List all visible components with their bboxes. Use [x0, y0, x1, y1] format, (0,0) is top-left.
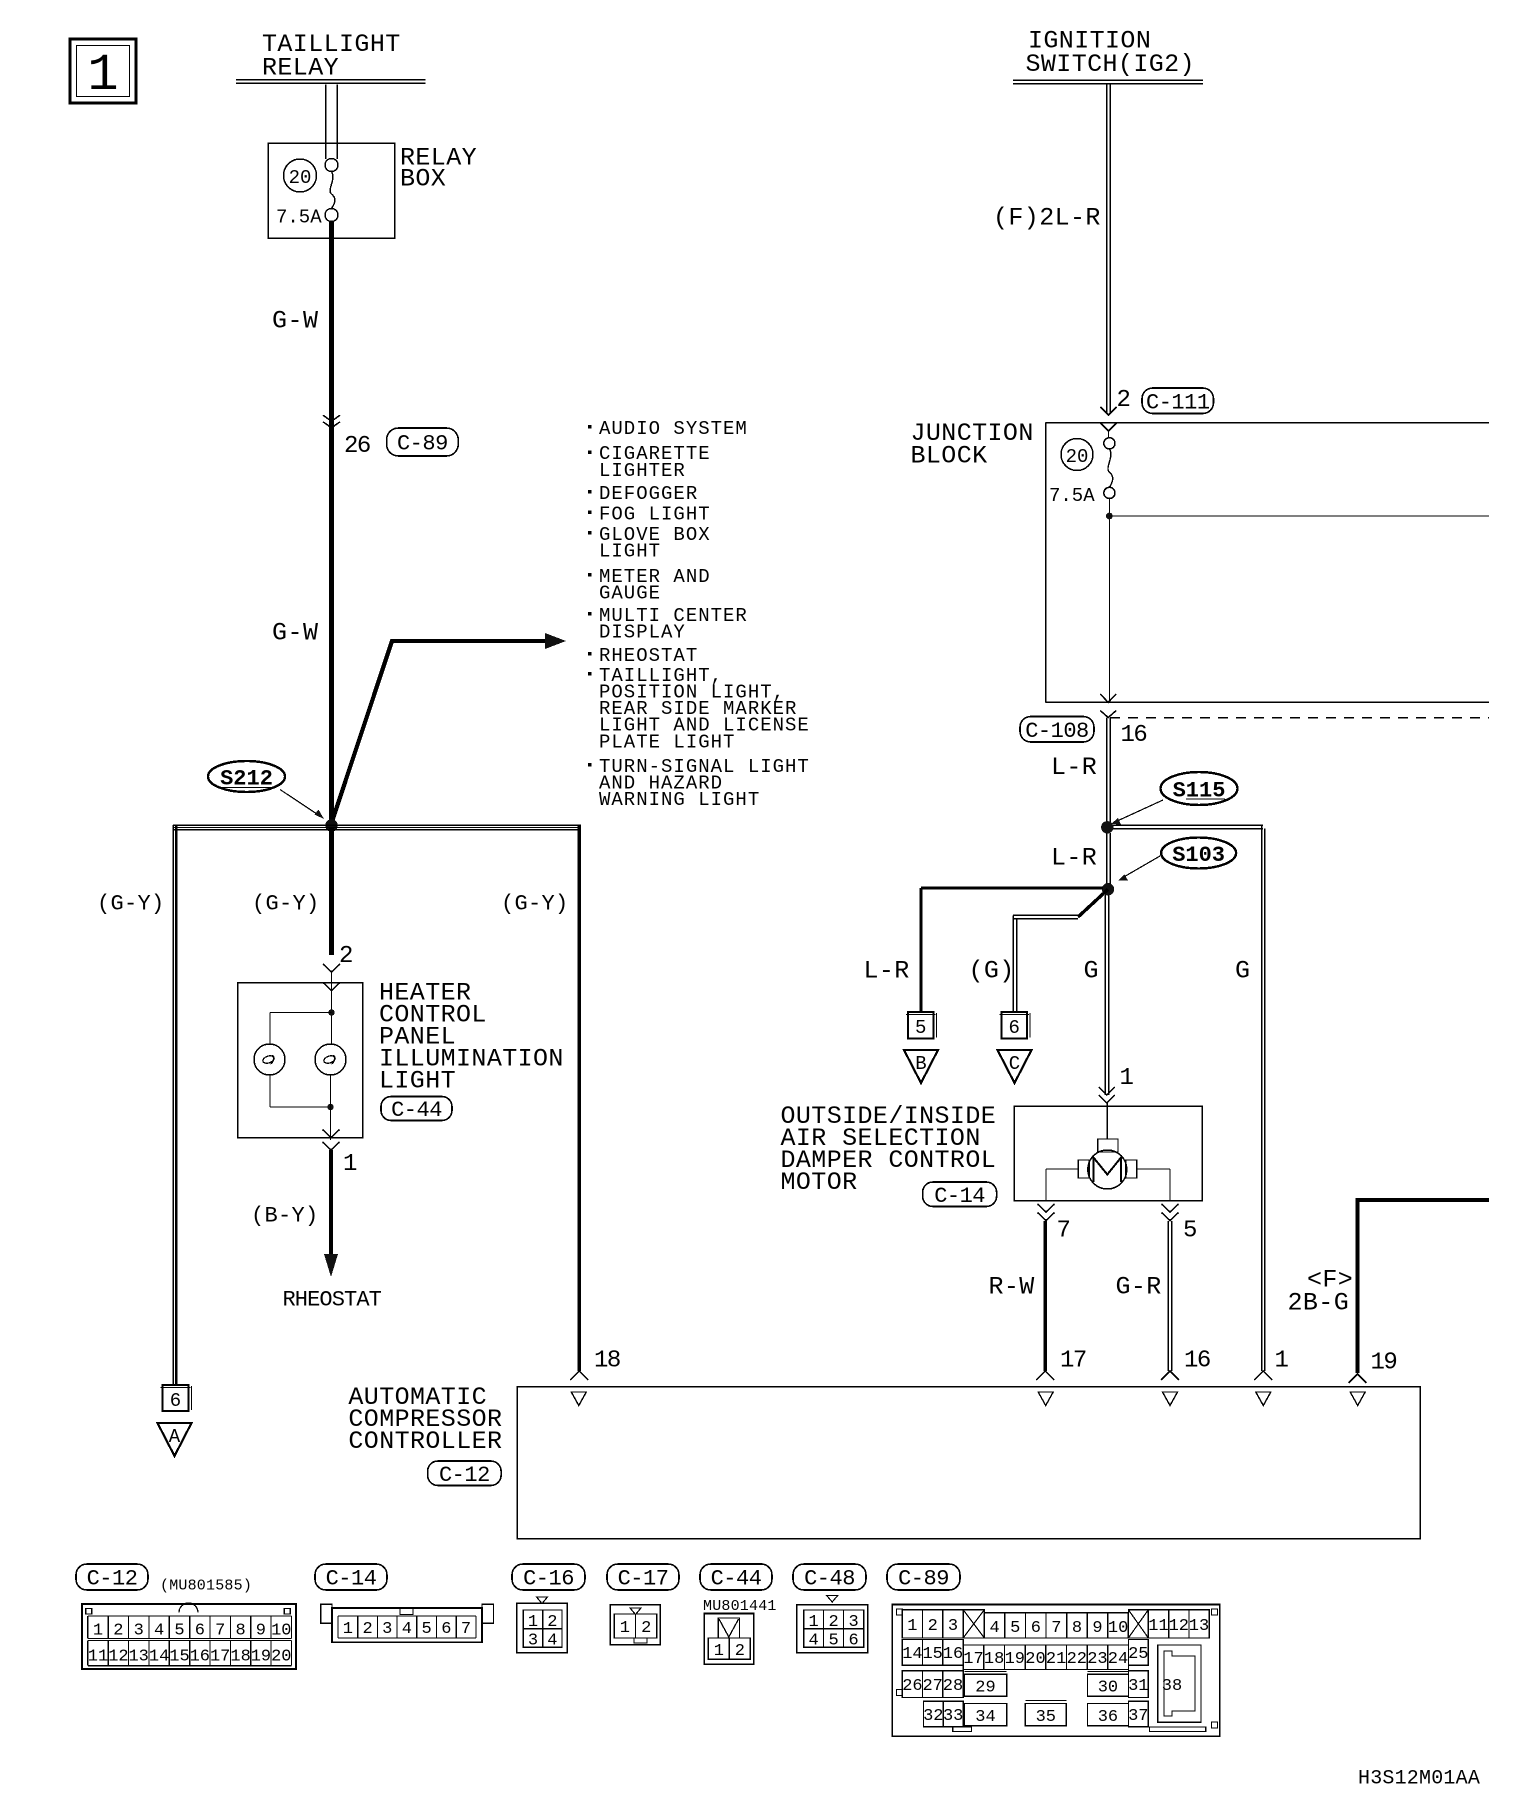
- connector view C-14: [315, 1564, 494, 1642]
- label G-W (upper): [272, 307, 319, 336]
- svg-text:14: 14: [902, 1645, 922, 1664]
- svg-text:DEFOGGER: DEFOGGER: [599, 483, 698, 505]
- svg-text:DISPLAY: DISPLAY: [599, 622, 686, 644]
- wire (G-Y) left+right rails from S212: [173, 825, 581, 1385]
- svg-text:(G): (G): [969, 957, 1015, 986]
- svg-text:27: 27: [922, 1677, 942, 1696]
- wire from taillight relay to fusible link: [326, 85, 338, 160]
- svg-text:3: 3: [382, 1620, 392, 1639]
- svg-text:16: 16: [1184, 1348, 1210, 1375]
- connector 5 (to B): [906, 1012, 937, 1039]
- label (G-Y) centre: [252, 892, 320, 917]
- svg-text:RHEOSTAT: RHEOSTAT: [599, 645, 698, 667]
- wire G : S115 to compressor pin 1: [1113, 825, 1265, 1371]
- wire B-Y to rheostat: [251, 1150, 382, 1313]
- svg-text:29: 29: [975, 1678, 995, 1697]
- svg-text:7.5A: 7.5A: [276, 206, 322, 228]
- svg-text:2: 2: [735, 1642, 745, 1661]
- svg-text:10: 10: [271, 1622, 291, 1641]
- outside/inside air selection damper control motor box: [781, 1102, 1203, 1209]
- svg-text:7: 7: [215, 1622, 225, 1641]
- connector view C-48: [793, 1564, 868, 1653]
- svg-text:1: 1: [343, 1620, 353, 1639]
- connector view C-89: [887, 1564, 1220, 1736]
- svg-text:5: 5: [421, 1620, 431, 1639]
- svg-text:19: 19: [251, 1648, 271, 1667]
- splice S103 label: [1118, 838, 1236, 881]
- svg-text:3: 3: [848, 1613, 858, 1632]
- svg-text:A: A: [169, 1426, 181, 1448]
- svg-text:38: 38: [1162, 1677, 1182, 1696]
- svg-text:7: 7: [1057, 1218, 1070, 1245]
- connector view C-17: [607, 1564, 679, 1645]
- svg-text:C-89: C-89: [397, 432, 448, 457]
- wire L-R : C-108 to splice S115: [1051, 718, 1110, 828]
- heater control panel illumination light C-44: [238, 979, 564, 1138]
- svg-text:30: 30: [1098, 1678, 1118, 1697]
- svg-text:C-14: C-14: [934, 1184, 985, 1209]
- svg-text:4: 4: [808, 1632, 818, 1651]
- pin 1 of C-44: [323, 1130, 358, 1179]
- svg-text:12: 12: [108, 1648, 128, 1667]
- svg-text:5: 5: [1010, 1619, 1020, 1638]
- pin 18 entry: [571, 1392, 586, 1406]
- svg-text:S103: S103: [1172, 843, 1225, 868]
- svg-text:6: 6: [441, 1620, 451, 1639]
- triangle C destination: [998, 1050, 1032, 1083]
- bulb 1: [254, 1044, 285, 1075]
- fuse 20 (7.5A) in junction block: [1049, 431, 1115, 507]
- svg-text:35: 35: [1036, 1708, 1056, 1727]
- svg-text:37: 37: [1128, 1707, 1148, 1726]
- svg-text:C-17: C-17: [618, 1567, 669, 1592]
- svg-text:2: 2: [113, 1622, 123, 1641]
- wire L-R branch to connector 5: [864, 888, 1104, 1012]
- svg-text:14: 14: [149, 1648, 169, 1667]
- relay box: [268, 143, 477, 238]
- svg-text:(G-Y): (G-Y): [252, 892, 320, 917]
- svg-text:1: 1: [1120, 1065, 1134, 1092]
- svg-text:1: 1: [93, 1622, 103, 1641]
- svg-text:6: 6: [170, 1390, 181, 1412]
- wire G : S103 to damper motor pin 1: [1084, 895, 1109, 1095]
- svg-text:RELAY: RELAY: [262, 54, 339, 83]
- svg-text:RHEOSTAT: RHEOSTAT: [283, 1288, 382, 1313]
- svg-text:6: 6: [195, 1622, 205, 1641]
- pin 16 entry: [1161, 1348, 1210, 1406]
- svg-text:18: 18: [594, 1348, 620, 1375]
- svg-text:2: 2: [828, 1613, 838, 1632]
- wire G-W : relay box to splice S212: [329, 222, 334, 827]
- junction block outline: [1046, 423, 1489, 703]
- svg-text:LIGHTER: LIGHTER: [599, 460, 686, 482]
- svg-text:6: 6: [1031, 1619, 1041, 1638]
- svg-text:26: 26: [344, 433, 370, 460]
- svg-text:B: B: [915, 1053, 926, 1075]
- svg-text:2: 2: [362, 1620, 372, 1639]
- svg-text:6: 6: [1009, 1017, 1020, 1039]
- load list fed by taillight relay circuit: [588, 418, 810, 811]
- svg-text:23: 23: [1087, 1650, 1107, 1669]
- pin 17 entry: [1036, 1348, 1086, 1406]
- svg-text:19: 19: [1005, 1650, 1025, 1669]
- svg-text:11: 11: [1148, 1617, 1168, 1636]
- wire (G) branch to connector 6: [969, 889, 1109, 1012]
- svg-text:2: 2: [928, 1617, 938, 1636]
- svg-text:31: 31: [1128, 1677, 1148, 1696]
- svg-text:7: 7: [1051, 1619, 1061, 1638]
- label (G-Y) left: [97, 892, 165, 917]
- svg-text:C-14: C-14: [326, 1567, 377, 1592]
- svg-text:PLATE LIGHT: PLATE LIGHT: [599, 731, 735, 753]
- svg-text:1: 1: [528, 1613, 538, 1632]
- svg-text:GAUGE: GAUGE: [599, 583, 661, 605]
- svg-text:(MU801585): (MU801585): [160, 1577, 252, 1594]
- svg-text:BLOCK: BLOCK: [911, 442, 988, 471]
- svg-text:5: 5: [915, 1017, 926, 1039]
- svg-text:1: 1: [808, 1613, 818, 1632]
- svg-text:C-12: C-12: [439, 1463, 490, 1488]
- svg-text:9: 9: [1092, 1619, 1102, 1638]
- connector 6 (to C): [1000, 1012, 1031, 1039]
- svg-text:G-R: G-R: [1116, 1273, 1162, 1302]
- svg-text:18: 18: [984, 1650, 1004, 1669]
- svg-text:20: 20: [289, 167, 312, 189]
- svg-text:BOX: BOX: [400, 165, 446, 194]
- svg-text:15: 15: [922, 1645, 942, 1664]
- svg-text:9: 9: [256, 1622, 266, 1641]
- svg-text:1: 1: [343, 1151, 357, 1178]
- svg-text:7: 7: [461, 1620, 471, 1639]
- svg-text:17: 17: [210, 1648, 230, 1667]
- svg-text:SWITCH(IG2): SWITCH(IG2): [1026, 50, 1195, 79]
- svg-text:10: 10: [1108, 1619, 1128, 1638]
- svg-text:26: 26: [902, 1677, 922, 1696]
- connector C-108 boundary (dashed): [1020, 711, 1489, 750]
- svg-text:LIGHT: LIGHT: [599, 541, 661, 563]
- svg-text:32: 32: [923, 1707, 943, 1726]
- automatic compressor controller box C-12: [348, 1383, 1420, 1538]
- pin 2 of C-44: [323, 943, 352, 991]
- wire G-R : pin 5 to compressor pin 16: [1116, 1221, 1172, 1371]
- svg-text:C-111: C-111: [1146, 390, 1210, 415]
- svg-text:34: 34: [975, 1708, 995, 1727]
- svg-text:5: 5: [174, 1622, 184, 1641]
- svg-text:8: 8: [1072, 1619, 1082, 1638]
- svg-text:2B-G: 2B-G: [1288, 1289, 1350, 1318]
- triangle B destination: [904, 1050, 938, 1083]
- pin 18 chevron: [570, 1348, 620, 1381]
- svg-text:24: 24: [1108, 1650, 1128, 1669]
- svg-text:25: 25: [1128, 1645, 1148, 1664]
- label JUNCTION BLOCK: [911, 419, 1034, 471]
- wire branch from S212 to load list arrow: [332, 633, 567, 823]
- svg-text:AUDIO SYSTEM: AUDIO SYSTEM: [599, 418, 748, 440]
- label G (right wire): [1235, 957, 1250, 986]
- pin 7 of C-14: [1038, 1204, 1070, 1245]
- svg-text:18: 18: [230, 1648, 250, 1667]
- junction block bus node: [1106, 499, 1489, 703]
- svg-text:LIGHT: LIGHT: [379, 1067, 456, 1096]
- wire <F>2B-G from page edge to compressor pin 19: [1288, 1198, 1490, 1373]
- svg-text:17: 17: [963, 1650, 983, 1669]
- node IGNITION SWITCH(IG2) (source): [1013, 27, 1203, 84]
- svg-text:C-44: C-44: [391, 1098, 442, 1123]
- svg-text:G-W: G-W: [272, 619, 319, 648]
- pin 19 entry: [1349, 1350, 1397, 1406]
- label (G-Y) right: [501, 892, 569, 917]
- connector view C-44 (MU801441): [700, 1564, 777, 1664]
- svg-text:3: 3: [528, 1632, 538, 1651]
- drawing number H3S12M01AA: [1358, 1768, 1480, 1791]
- svg-text:22: 22: [1067, 1650, 1087, 1669]
- svg-text:28: 28: [943, 1677, 963, 1696]
- svg-text:C-44: C-44: [711, 1567, 762, 1592]
- pin 1 entry: [1254, 1348, 1288, 1406]
- svg-text:R-W: R-W: [989, 1273, 1035, 1302]
- node S212 junction: [325, 819, 337, 831]
- svg-text:L-R: L-R: [864, 957, 910, 986]
- connector view C-16: [512, 1564, 585, 1653]
- svg-text:C-16: C-16: [523, 1567, 574, 1592]
- bulb 2: [315, 1044, 346, 1075]
- svg-text:CONTROLLER: CONTROLLER: [348, 1427, 502, 1456]
- wire L-R : S115 to S103: [1051, 833, 1110, 889]
- svg-text:C-48: C-48: [804, 1567, 855, 1592]
- svg-text:C-89: C-89: [898, 1567, 949, 1592]
- node S103 junction: [1102, 883, 1114, 895]
- svg-text:L-R: L-R: [1051, 844, 1097, 873]
- page index box 1: [70, 39, 136, 105]
- junction block exit chevron: [1100, 694, 1116, 703]
- svg-text:FOG LIGHT: FOG LIGHT: [599, 504, 711, 526]
- svg-text:13: 13: [128, 1648, 148, 1667]
- svg-text:C-108: C-108: [1025, 719, 1089, 744]
- svg-text:MU801441: MU801441: [703, 1598, 777, 1615]
- svg-text:20: 20: [1066, 446, 1089, 468]
- connector view C-12 (MU801585): [76, 1564, 296, 1669]
- svg-text:C-12: C-12: [87, 1567, 138, 1592]
- splice S212 label: [208, 761, 324, 819]
- svg-text:4: 4: [154, 1622, 164, 1641]
- svg-text:8: 8: [235, 1622, 245, 1641]
- svg-text:(F)2L-R: (F)2L-R: [993, 204, 1101, 233]
- connector arrow 26 (C-89): [323, 415, 458, 460]
- svg-text:1: 1: [87, 46, 118, 105]
- motor M symbol: [1078, 1103, 1137, 1189]
- label G-W (lower): [272, 619, 319, 648]
- svg-text:2: 2: [641, 1619, 651, 1638]
- fuse 20 (7.5A) in relay box: [276, 159, 338, 229]
- svg-text:L-R: L-R: [1051, 753, 1097, 782]
- svg-text:1: 1: [907, 1617, 917, 1636]
- splice S115 label: [1111, 772, 1238, 825]
- svg-text:G: G: [1235, 957, 1250, 986]
- svg-text:WARNING LIGHT: WARNING LIGHT: [599, 789, 760, 811]
- svg-text:16: 16: [190, 1648, 210, 1667]
- svg-text:17: 17: [1060, 1348, 1086, 1375]
- svg-text:5: 5: [828, 1632, 838, 1651]
- node S115 junction: [1101, 821, 1113, 833]
- svg-text:11: 11: [88, 1648, 108, 1667]
- connector 2 (C-111): [1101, 387, 1214, 431]
- svg-text:(G-Y): (G-Y): [97, 892, 165, 917]
- wire R-W : pin 7 to compressor pin 17: [989, 1221, 1046, 1371]
- svg-text:16: 16: [1121, 722, 1147, 749]
- svg-text:20: 20: [271, 1648, 291, 1667]
- svg-text:20: 20: [1025, 1650, 1045, 1669]
- wire (F)2L-R ignition to junction block: [1107, 85, 1110, 415]
- svg-text:13: 13: [1189, 1617, 1209, 1636]
- svg-text:6: 6: [848, 1632, 858, 1651]
- svg-text:S115: S115: [1173, 779, 1226, 804]
- svg-text:21: 21: [1046, 1650, 1066, 1669]
- svg-text:(B-Y): (B-Y): [251, 1204, 319, 1229]
- pin 1 of C-14 motor: [1099, 1065, 1134, 1103]
- label (F)2L-R: [993, 204, 1101, 233]
- triangle A destination: [158, 1423, 192, 1456]
- svg-text:1: 1: [620, 1619, 630, 1638]
- svg-text:2: 2: [339, 943, 352, 970]
- svg-text:3: 3: [948, 1617, 958, 1636]
- svg-text:C: C: [1009, 1053, 1020, 1075]
- wire G-Y down to heater panel pin 2: [329, 828, 334, 955]
- motor leads to pins 7 and 5: [1046, 1169, 1170, 1201]
- svg-text:3: 3: [134, 1622, 144, 1641]
- svg-text:(G-Y): (G-Y): [501, 892, 569, 917]
- svg-text:36: 36: [1098, 1708, 1118, 1727]
- node TAILLIGHT RELAY (source): [236, 30, 426, 83]
- svg-text:2: 2: [1117, 387, 1130, 414]
- svg-text:G: G: [1084, 957, 1099, 986]
- pin 5 of C-14: [1162, 1204, 1197, 1245]
- svg-text:12: 12: [1169, 1617, 1189, 1636]
- svg-text:4: 4: [547, 1632, 557, 1651]
- svg-text:5: 5: [1183, 1218, 1196, 1245]
- heater lamp internal wiring: [270, 972, 335, 1140]
- svg-text:7.5A: 7.5A: [1049, 485, 1095, 507]
- svg-text:1: 1: [714, 1642, 724, 1661]
- svg-text:15: 15: [169, 1648, 189, 1667]
- svg-text:2: 2: [547, 1613, 557, 1632]
- svg-text:1: 1: [1275, 1348, 1289, 1375]
- svg-text:19: 19: [1371, 1350, 1397, 1377]
- svg-text:4: 4: [989, 1619, 999, 1638]
- svg-text:33: 33: [943, 1707, 963, 1726]
- svg-text:16: 16: [943, 1645, 963, 1664]
- svg-text:G-W: G-W: [272, 307, 319, 336]
- connector 6 (left): [161, 1385, 192, 1412]
- svg-text:4: 4: [402, 1620, 412, 1639]
- svg-text:H3S12M01AA: H3S12M01AA: [1358, 1768, 1480, 1791]
- svg-text:MOTOR: MOTOR: [781, 1168, 858, 1197]
